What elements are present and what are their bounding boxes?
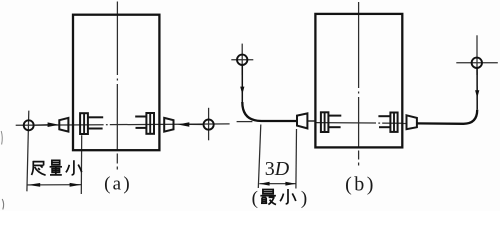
cable left bend arc (b)	[242, 102, 261, 121]
cable right horizontal (b)	[417, 122, 464, 125]
glyph 最 (zui) of (最小)	[260, 190, 276, 205]
glyph 量 (liang) of 尽量小	[50, 160, 62, 175]
svg-text:(: (	[252, 188, 258, 209]
scan artifact bottom left corner	[2, 199, 3, 210]
glyph 尽 (jin) of 尽量小	[32, 161, 46, 175]
connector pin bottom right (a)	[136, 127, 147, 129]
connector middle bar right (b)	[393, 113, 395, 132]
connector receptacle right (a)	[146, 113, 154, 134]
crosshair vertical + extension line left (a)	[27, 111, 29, 192]
extension line left (b)	[258, 125, 261, 189]
connector pin top right (a)	[135, 116, 146, 118]
centerline horizontal inside box (b) dot	[378, 122, 380, 124]
dimension arrow left (b)	[259, 182, 269, 186]
dimension line (a)	[27, 184, 81, 186]
centerline vertical box (a) dot2	[116, 167, 118, 170]
crosshair vertical circle left (b)	[241, 44, 243, 75]
centerline stub wall to plug right (b)	[402, 123, 407, 125]
centerline vertical box (b) dot	[358, 92, 360, 94]
plug trapezoid left (b)	[297, 113, 307, 128]
connector middle bar left (b)	[324, 112, 326, 132]
plug trapezoid right (a)	[164, 118, 173, 132]
glyphs drawn as strokes	[32, 160, 296, 204]
target circle right (a)	[204, 120, 214, 130]
svg-text:3D: 3D	[265, 158, 290, 180]
centerline vertical box (a) seg1	[116, 2, 118, 76]
centerline crosshair dash at bend (b)	[237, 121, 253, 123]
connector middle bar right (a)	[149, 113, 151, 134]
centerline horizontal axis (a) segment 2	[110, 123, 230, 126]
cable left horizontal (b)	[262, 120, 298, 122]
insertion arrow shaft right (a)	[189, 123, 204, 125]
connector middle bar left (a)	[83, 113, 85, 134]
svg-text:): )	[301, 188, 307, 209]
cable arrow right (b)	[475, 90, 479, 98]
glyph 小 (xiao) of 尽量小	[66, 160, 82, 175]
dimension line (b)	[259, 183, 296, 185]
connector pin top left (b)	[328, 115, 341, 117]
insertion arrow head left (a)	[48, 122, 59, 127]
connector pin top right (b)	[378, 115, 390, 117]
connector receptacle left (b)	[321, 112, 329, 132]
crosshair horizontal circle right (b)	[456, 62, 498, 64]
connector pin bottom left (b)	[328, 126, 340, 128]
target circle left (a)	[24, 120, 34, 130]
connector pin bottom right (b)	[379, 126, 390, 128]
dimension arrow right (a)	[70, 183, 82, 187]
centerline horizontal inside box (b) segment 1	[316, 122, 376, 124]
centerline vertical box (a) seg2	[116, 84, 118, 151]
cable right vertical (b)	[476, 68, 478, 110]
cable arrow left (b)	[240, 87, 244, 95]
scan artifact left edge middle	[1, 131, 2, 145]
svg-text:(b): (b)	[345, 174, 376, 196]
extension line right (b)	[295, 129, 298, 189]
dimension arrow left (a)	[28, 183, 41, 187]
centerline vertical box (a) seg3 below box	[116, 154, 118, 164]
connector pin bottom left (a)	[88, 128, 103, 130]
box (b)	[315, 14, 402, 148]
centerline horizontal axis (a) dot	[106, 124, 108, 126]
svg-text:(a): (a)	[104, 174, 132, 195]
extension line right (a)	[80, 135, 82, 194]
insertion arrow head right (a)	[178, 122, 190, 127]
connector pin top left (a)	[88, 116, 103, 118]
glyph 小 (xiao) of (最小)	[280, 189, 296, 204]
box (a)	[73, 15, 159, 151]
centerline horizontal inside box (b) segment 2	[382, 122, 401, 124]
insertion arrow shaft left (a)	[34, 124, 49, 126]
connector receptacle right (b)	[390, 113, 397, 132]
centerline vertical box (a) dot	[116, 79, 118, 81]
dimension arrow right (b)	[285, 182, 295, 186]
target circle left (b)	[237, 55, 247, 65]
cable left vertical (b)	[241, 65, 243, 102]
target circle right (b)	[472, 58, 482, 68]
connector receptacle left (a)	[80, 113, 88, 134]
centerline vertical box (b) seg1	[358, 2, 360, 88]
crosshair vertical circle right (a)	[208, 108, 210, 141]
centerline vertical box (b) seg3 below box	[358, 151, 360, 160]
centerline vertical box (b) seg2	[358, 97, 360, 148]
centerline vertical box (b) dot2	[358, 163, 360, 166]
plug trapezoid left (a)	[59, 118, 68, 132]
stub plug to wall left (b)	[307, 120, 315, 122]
centerline horizontal axis (a) segment 1	[16, 124, 104, 127]
crosshair vertical circle right (b)	[476, 35, 478, 75]
plug trapezoid right (b)	[407, 115, 417, 129]
cable right bend arc (b)	[464, 110, 478, 124]
crosshair horizontal circle left (b)	[231, 59, 253, 61]
